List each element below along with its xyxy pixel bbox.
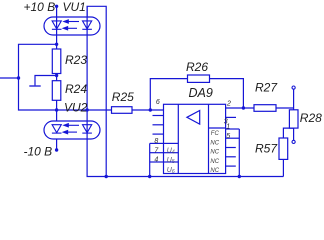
svg-text:DA9: DA9 [189,86,213,100]
wire NC stub 3 [226,165,236,167]
op-amp DA9 left field divider row 4 [164,161,179,163]
light arrows VU2 [63,124,79,134]
svg-text:R57: R57 [255,142,278,156]
svg-text:R24: R24 [65,82,87,96]
node R23-R24 junction [55,74,58,77]
svg-text:NC: NC [210,140,219,146]
svg-text:5: 5 [226,133,230,140]
photodiode VU1 left [52,21,62,29]
light arrows VU1 [63,20,79,30]
svg-text:+10 В: +10 В [24,0,56,14]
wire R26 to pin 2 [210,79,244,108]
wire R23 to R24 [56,74,58,81]
photodiode VU1 right [82,21,92,29]
svg-text:8: 8 [154,138,158,145]
node VU2 right [85,108,88,111]
svg-text:1: 1 [226,124,230,131]
terminal circle R28 top [292,86,295,89]
wire R26 feedback loop [150,79,187,110]
wire pin 7 stub [150,152,164,154]
svg-text:U4: U4 [167,147,175,155]
wire pins 8-7-4 tie to rail [149,143,151,176]
wire pin 4 stub [150,161,164,163]
wire R28 top terminal [293,89,295,110]
wire R24 to VU2 [56,100,58,121]
wire left input stub row3 [153,133,164,135]
op-amp U1 box DA9 [164,104,226,173]
resistor R57 [279,138,288,159]
svg-text:2: 2 [226,100,231,107]
wire top link VU1 to bus [87,6,106,176]
terminal circle R28 bottom [292,140,295,143]
resistor R26 [188,75,210,82]
wire left input at y=78 [0,77,19,79]
node R26 riser [149,108,152,111]
op-amp DA9 right sub-field top divider [209,127,226,129]
wire R57 to rail [282,159,284,176]
op-amp DA9 amplifier triangle [187,111,200,125]
svg-text:R25: R25 [112,90,134,104]
photodiode VU2 right [82,125,92,133]
node +10V [55,5,58,8]
node R23 top [55,43,58,46]
wire VU2 to -10V [56,139,58,150]
wire left input stub row1 [153,115,164,117]
optocoupler VU1 body [44,17,100,35]
node left input [17,76,20,79]
ground bar [29,85,40,87]
op-amp DA9 inner divider left [177,104,179,173]
svg-text:NC: NC [210,168,219,174]
svg-text:VU1: VU1 [63,0,86,14]
svg-text:R23: R23 [65,53,87,67]
wire ground branch [35,76,57,86]
wire pin 8 stub [150,142,164,144]
node rail bus [105,175,108,178]
svg-text:NC: NC [210,159,219,165]
resistor R24 [52,81,61,101]
op-amp DA9 left field divider row 7 [164,152,179,154]
svg-text:U6: U6 [167,167,175,175]
wire left input stub row2 [153,124,164,126]
wire right photodiode bus x=87 down to bottom rail [87,6,283,176]
svg-text:U5: U5 [167,157,175,165]
wire DA9 pin 3 stub [226,116,236,118]
op-amp DA9 left field divider row 8 [164,142,179,144]
svg-text:NC: NC [210,150,219,156]
wire pin 5 stub [226,137,240,139]
svg-text:VU2: VU2 [64,100,88,114]
wire R28 to R57 [283,128,293,138]
wire left riser x=18.5 [19,44,57,110]
photodiode VU2 left [52,125,62,133]
node pin2 feedback [242,106,245,109]
wire R28 bottom lead [293,128,295,140]
wire R27 to R28 [276,107,294,109]
node rail pins 1-5 [238,175,241,178]
wire DA9 pin 2 to R27 [226,107,254,109]
wire +10V vertical through VU1 down to R23 [56,6,58,49]
wire main horizontal y=110 to R25 [57,109,112,111]
wire pins 1-5 tie to rail [238,129,240,177]
svg-text:R26: R26 [186,60,208,74]
node -10V [55,148,58,151]
svg-text:R28: R28 [300,111,322,125]
optocoupler VU2 body [44,121,100,139]
resistor R27 [254,105,276,112]
resistor R28 [289,110,298,128]
wire NC stub 1 [226,147,236,149]
node rail pins 8-7-4 [148,175,151,178]
svg-text:R27: R27 [255,81,278,95]
op-amp DA9 inner divider right [208,104,210,173]
node VU2 left [55,108,58,111]
resistor R25 [112,107,133,114]
svg-text:-10 В: -10 В [24,144,53,158]
svg-text:4: 4 [154,157,158,164]
svg-text:6: 6 [156,99,160,106]
wire R25 to DA9 pin 6 [132,109,164,111]
svg-text:FC: FC [211,131,220,137]
resistor R23 [52,49,61,74]
wire NC stub 2 [226,156,236,158]
wire pin 1 stub [226,128,240,130]
